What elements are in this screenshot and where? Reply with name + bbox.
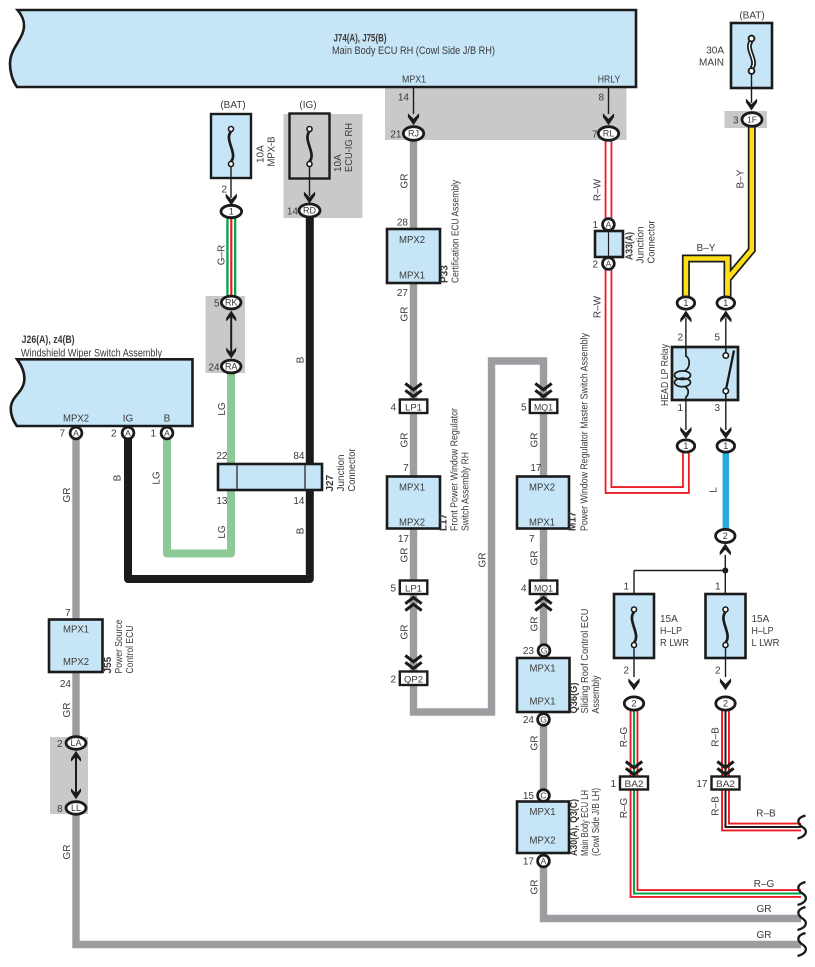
svg-text:MQ1: MQ1 xyxy=(534,402,553,413)
relay pin 2 stub to node 1 xyxy=(685,318,687,347)
svg-text:30A: 30A xyxy=(706,46,724,57)
svg-text:2: 2 xyxy=(592,260,598,271)
svg-text:GR: GR xyxy=(400,548,411,563)
svg-text:R–B: R–B xyxy=(756,809,776,820)
svg-text:GR: GR xyxy=(478,553,489,568)
svg-text:23: 23 xyxy=(523,646,535,657)
svg-text:G–R: G–R xyxy=(217,245,228,266)
svg-text:GR: GR xyxy=(62,703,73,718)
svg-text:GR: GR xyxy=(62,488,73,503)
svg-text:MPX1: MPX1 xyxy=(399,483,425,494)
junction connector J27 box xyxy=(218,464,322,490)
svg-text:17: 17 xyxy=(398,534,410,545)
svg-text:J27: J27 xyxy=(325,474,336,491)
svg-text:MPX2: MPX2 xyxy=(530,836,556,847)
svg-text:C: C xyxy=(540,791,546,801)
gray highlight band under J74 pins MPX1/HRLY xyxy=(385,87,627,140)
svg-text:7: 7 xyxy=(59,429,65,440)
svg-text:5: 5 xyxy=(390,584,396,595)
svg-text:7: 7 xyxy=(65,608,71,619)
svg-text:7: 7 xyxy=(529,534,535,545)
svg-text:GR: GR xyxy=(400,174,411,189)
wire GR from MQ1 to Q36 pin 23 xyxy=(540,594,547,648)
wire B from IG fuse RD to J27 pin 84 xyxy=(306,215,314,465)
svg-text:(IG): (IG) xyxy=(299,100,316,111)
wire B-Y from 1F to relay feed xyxy=(728,126,752,297)
ECU P33 Certification ECU Assembly box xyxy=(387,229,440,283)
svg-text:MPX2: MPX2 xyxy=(63,414,89,425)
wire GR from LL to bottom right edge xyxy=(76,812,801,945)
break squiggle GR lower xyxy=(798,933,806,956)
wire GR from P33 pin 27 to LP1 xyxy=(410,283,417,400)
wire LG from RA to J27 pin 22 xyxy=(227,371,235,465)
svg-text:2: 2 xyxy=(631,699,636,709)
wire GR from MQ1 to M17 pin 17 xyxy=(540,412,547,477)
svg-text:22: 22 xyxy=(216,451,228,462)
svg-text:B: B xyxy=(164,414,171,425)
svg-text:(BAT): (BAT) xyxy=(220,100,245,111)
svg-text:R–G: R–G xyxy=(754,879,775,890)
svg-text:27: 27 xyxy=(397,288,409,299)
svg-text:A: A xyxy=(73,428,79,438)
svg-text:14: 14 xyxy=(398,93,410,104)
break squiggle R-B xyxy=(798,816,806,839)
svg-text:1: 1 xyxy=(723,441,728,451)
wire junction to headlamp fuses xyxy=(724,555,726,571)
svg-text:R–W: R–W xyxy=(593,178,604,201)
svg-text:2: 2 xyxy=(677,333,683,344)
svg-text:A: A xyxy=(164,428,170,438)
pin 8 HRLY stub of J74 xyxy=(608,87,610,114)
svg-text:LP1: LP1 xyxy=(405,402,422,413)
svg-text:RA: RA xyxy=(225,362,238,372)
svg-text:GR: GR xyxy=(530,880,541,895)
svg-text:IG: IG xyxy=(123,414,134,425)
ECU Q36(G) Sliding Roof Control ECU Assembly box xyxy=(517,658,570,712)
connector 1 BA2 xyxy=(626,762,642,775)
connector J26(A) z4(B) Windshield Wiper Switch Assembly box xyxy=(11,359,193,426)
svg-text:1: 1 xyxy=(610,779,616,790)
wire L from relay pin 3 to connector 2 xyxy=(723,452,730,530)
svg-text:L LWR: L LWR xyxy=(752,638,780,649)
svg-text:7: 7 xyxy=(592,130,598,141)
svg-text:Junction: Junction xyxy=(336,455,347,492)
svg-text:H–LP: H–LP xyxy=(660,626,682,637)
svg-text:3: 3 xyxy=(714,403,720,414)
svg-text:10A: 10A xyxy=(333,154,344,172)
svg-text:P33: P33 xyxy=(440,265,451,283)
node 1 below MPX-B fuse xyxy=(221,205,242,217)
ECU J55 Power Source Control ECU box xyxy=(49,620,103,673)
wire GR from M17 pin 7 to MQ1 xyxy=(540,529,547,582)
svg-text:2: 2 xyxy=(723,531,728,541)
svg-text:QP2: QP2 xyxy=(404,674,423,685)
svg-text:84: 84 xyxy=(293,451,305,462)
svg-text:A: A xyxy=(606,259,612,269)
svg-text:A: A xyxy=(606,220,612,230)
svg-text:(BAT): (BAT) xyxy=(739,11,764,22)
connector 5 MQ1 xyxy=(535,384,551,397)
svg-text:L17: L17 xyxy=(439,513,450,531)
svg-text:MPX2: MPX2 xyxy=(399,235,425,246)
svg-text:LP1: LP1 xyxy=(405,583,422,594)
svg-text:2: 2 xyxy=(57,739,63,750)
svg-text:GR: GR xyxy=(530,551,541,566)
wire R-W from RL to A33 and relay pin 1 xyxy=(609,140,686,490)
svg-text:BA2: BA2 xyxy=(625,779,644,790)
svg-text:A: A xyxy=(541,856,547,866)
svg-text:Front Power Window Regulator: Front Power Window Regulator xyxy=(450,407,461,531)
svg-text:Connector: Connector xyxy=(647,220,658,264)
pin 14 MPX1 stub of J74 xyxy=(413,87,415,114)
node 2 on L wire xyxy=(716,529,735,542)
svg-text:(Cowl Side J/B LH): (Cowl Side J/B LH) xyxy=(591,788,602,856)
gray highlight band behind connector 1F xyxy=(725,111,768,128)
break squiggle R-G xyxy=(798,882,806,905)
relay pin 5 stub to node 1 xyxy=(725,318,727,347)
svg-text:M17: M17 xyxy=(568,511,579,531)
fuse 15A H-LP L LWR xyxy=(706,594,746,658)
gray highlight band around splice RK/RA xyxy=(206,296,246,373)
svg-text:B: B xyxy=(296,527,307,534)
svg-text:GR: GR xyxy=(757,904,772,915)
wire R-B from H-LP L LWR fuse to BA2 and right edge xyxy=(721,710,730,777)
svg-text:RL: RL xyxy=(603,129,615,139)
svg-text:Switch Assembly RH: Switch Assembly RH xyxy=(461,452,472,531)
switch M17 Power Window Regulator Master Switch Assembly box xyxy=(517,477,569,529)
svg-text:MPX2: MPX2 xyxy=(529,483,555,494)
break squiggle GR upper xyxy=(798,907,806,930)
svg-text:1F: 1F xyxy=(747,115,757,125)
svg-text:B–Y: B–Y xyxy=(697,243,716,254)
svg-text:MPX1: MPX1 xyxy=(530,697,556,708)
svg-text:Q36(G): Q36(G) xyxy=(569,683,580,714)
svg-text:R–G: R–G xyxy=(619,797,630,818)
svg-text:G: G xyxy=(540,715,547,725)
fuse 15A H-LP R LWR xyxy=(614,594,654,658)
svg-text:MQ1: MQ1 xyxy=(534,583,553,594)
relay pin 1 stub to node 1 xyxy=(685,400,687,430)
svg-text:1: 1 xyxy=(150,429,156,440)
svg-text:GR: GR xyxy=(757,930,772,941)
svg-text:17: 17 xyxy=(696,779,708,790)
connector 4 LP1 xyxy=(405,384,421,397)
svg-text:5: 5 xyxy=(214,299,220,310)
svg-text:14: 14 xyxy=(287,207,299,218)
svg-text:Assembly: Assembly xyxy=(591,676,602,714)
wire LG from J27 pin 13 to J26 B pin xyxy=(167,439,231,554)
svg-text:24: 24 xyxy=(523,715,535,726)
svg-text:15A: 15A xyxy=(660,614,678,625)
svg-text:A33(A): A33(A) xyxy=(625,232,636,260)
svg-text:Sliding Roof Control ECU: Sliding Roof Control ECU xyxy=(580,609,591,714)
connector 5 LP1 xyxy=(400,581,428,595)
svg-text:1: 1 xyxy=(683,298,688,308)
connector 2 QP2 xyxy=(405,656,421,669)
svg-text:A: A xyxy=(125,428,131,438)
svg-text:24: 24 xyxy=(60,679,72,690)
svg-text:15: 15 xyxy=(523,791,535,802)
svg-text:MAIN: MAIN xyxy=(699,58,724,69)
svg-text:2: 2 xyxy=(221,185,227,196)
svg-text:1: 1 xyxy=(723,298,728,308)
ECU J74(A) J75(B) Main Body ECU RH box xyxy=(10,10,636,87)
gray highlight band around IG fuse xyxy=(284,114,363,218)
wire GR from Q36 pin 24 to A30 pin 15 xyxy=(540,722,547,794)
svg-text:Windshield Wiper Switch Assemb: Windshield Wiper Switch Assembly xyxy=(21,348,162,360)
svg-text:MPX1: MPX1 xyxy=(529,518,555,529)
svg-text:RD: RD xyxy=(303,206,316,216)
wire GR from J55 pin 24 to LA xyxy=(72,672,79,738)
svg-text:7: 7 xyxy=(403,463,409,474)
svg-text:13: 13 xyxy=(216,496,228,507)
svg-text:MPX1: MPX1 xyxy=(530,664,556,675)
wire GR from L17 pin 17 to LP1 xyxy=(410,529,417,582)
svg-text:2: 2 xyxy=(390,675,396,686)
svg-text:1: 1 xyxy=(623,582,629,593)
svg-text:R–B: R–B xyxy=(711,727,722,747)
svg-text:R–W: R–W xyxy=(593,295,604,318)
svg-text:17: 17 xyxy=(530,463,542,474)
svg-text:5: 5 xyxy=(714,333,720,344)
relay contact switch xyxy=(725,347,727,353)
svg-text:HEAD LP Relay: HEAD LP Relay xyxy=(660,344,671,406)
svg-text:2: 2 xyxy=(715,666,721,677)
svg-text:8: 8 xyxy=(598,93,604,104)
svg-text:5: 5 xyxy=(521,403,527,414)
ECU A30(A) Q3(C) Main Body ECU LH box xyxy=(517,802,569,854)
switch L17 Front Power Window Regulator Switch Assembly RH box xyxy=(387,477,440,529)
svg-text:3: 3 xyxy=(733,116,739,127)
svg-text:Power Source: Power Source xyxy=(114,619,125,673)
connector 4 MQ1 xyxy=(530,581,558,595)
relay coil xyxy=(685,347,690,371)
wire G-R from fuse MPX-B to RK xyxy=(226,216,236,297)
svg-text:BA2: BA2 xyxy=(716,779,735,790)
svg-text:2: 2 xyxy=(723,699,728,709)
svg-text:MPX1: MPX1 xyxy=(530,807,556,818)
svg-text:Connector: Connector xyxy=(347,448,358,492)
wire GR from A30 pin 17 to right edge xyxy=(544,863,802,919)
svg-text:B: B xyxy=(113,474,124,481)
svg-text:GR: GR xyxy=(400,625,411,640)
wire GR from J26 MPX2 to J55 pin 7 xyxy=(72,438,79,620)
relay HEAD LP Relay box xyxy=(672,347,738,400)
svg-text:Control ECU: Control ECU xyxy=(125,626,136,674)
svg-text:L: L xyxy=(709,487,720,493)
wire B from J27 pin 14 to J26 IG pin xyxy=(128,439,310,579)
svg-text:LG: LG xyxy=(217,402,228,416)
svg-text:1: 1 xyxy=(229,207,234,217)
svg-text:R–B: R–B xyxy=(711,796,722,816)
svg-text:B–Y: B–Y xyxy=(736,169,747,188)
svg-text:1: 1 xyxy=(677,403,683,414)
svg-text:MPX2: MPX2 xyxy=(63,657,89,668)
svg-text:21: 21 xyxy=(390,130,402,141)
gray highlight band around splice LA/LL xyxy=(50,737,88,814)
svg-text:J74(A), J75(B): J74(A), J75(B) xyxy=(334,33,387,45)
svg-text:R LWR: R LWR xyxy=(660,638,689,649)
svg-text:1: 1 xyxy=(592,220,598,231)
junction connector A33(A) box xyxy=(595,231,623,257)
svg-text:LG: LG xyxy=(152,471,163,485)
svg-text:MPX-B: MPX-B xyxy=(267,136,278,166)
svg-text:GR: GR xyxy=(530,617,541,632)
svg-text:14: 14 xyxy=(293,496,305,507)
svg-text:MPX1: MPX1 xyxy=(63,625,89,636)
svg-text:G: G xyxy=(541,646,548,656)
svg-text:HRLY: HRLY xyxy=(598,75,621,86)
svg-text:Main Body ECU RH (Cowl Side J/: Main Body ECU RH (Cowl Side J/B RH) xyxy=(332,45,495,57)
svg-text:RJ: RJ xyxy=(408,129,419,139)
svg-text:ECU-IG RH: ECU-IG RH xyxy=(344,123,355,172)
svg-text:2: 2 xyxy=(623,666,629,677)
svg-text:LA: LA xyxy=(70,738,81,748)
svg-text:Junction: Junction xyxy=(636,227,647,264)
svg-text:10A: 10A xyxy=(256,145,267,163)
wire GR from LP1 to QP2 xyxy=(410,594,417,672)
svg-text:GR: GR xyxy=(62,845,73,860)
svg-text:MPX2: MPX2 xyxy=(399,518,425,529)
svg-text:GR: GR xyxy=(400,433,411,448)
svg-text:2: 2 xyxy=(111,429,117,440)
connector 17 BA2 xyxy=(717,762,733,775)
svg-text:R–G: R–G xyxy=(619,726,630,747)
svg-text:GR: GR xyxy=(530,736,541,751)
svg-text:J26(A), z4(B): J26(A), z4(B) xyxy=(22,334,75,346)
svg-text:B: B xyxy=(296,356,307,363)
svg-text:1: 1 xyxy=(683,441,688,451)
svg-text:H–LP: H–LP xyxy=(752,626,774,637)
svg-text:15A: 15A xyxy=(752,614,770,625)
svg-text:24: 24 xyxy=(208,363,220,374)
svg-text:8: 8 xyxy=(57,804,63,815)
svg-text:MPX1: MPX1 xyxy=(402,75,426,86)
svg-text:RK: RK xyxy=(225,298,238,308)
svg-text:LL: LL xyxy=(71,803,81,813)
wire GR from LP1 to L17 pin 7 xyxy=(410,412,417,477)
svg-text:4: 4 xyxy=(390,403,396,414)
svg-text:GR: GR xyxy=(530,433,541,448)
svg-text:Certification ECU Assembly: Certification ECU Assembly xyxy=(451,180,462,283)
svg-text:1: 1 xyxy=(715,582,721,593)
svg-text:17: 17 xyxy=(523,857,535,868)
relay pin 3 stub to node 1 xyxy=(725,400,727,430)
wire GR from RJ to P33 pin 28 xyxy=(410,139,417,230)
svg-text:A30(A), Q3(C): A30(A), Q3(C) xyxy=(569,799,580,856)
svg-text:Main Body ECU LH: Main Body ECU LH xyxy=(580,790,591,856)
wire R-G from H-LP R LWR fuse to BA2 and right edge xyxy=(630,710,639,777)
svg-text:LG: LG xyxy=(217,525,228,539)
svg-text:MPX1: MPX1 xyxy=(399,271,425,282)
wire GR loop from QP2 to MQ1 xyxy=(414,361,544,712)
svg-text:28: 28 xyxy=(397,218,409,229)
svg-text:GR: GR xyxy=(400,307,411,322)
svg-text:J55: J55 xyxy=(103,656,114,673)
svg-text:Power Window Regulator Master: Power Window Regulator Master Switch Ass… xyxy=(580,333,591,531)
svg-text:4: 4 xyxy=(521,584,527,595)
